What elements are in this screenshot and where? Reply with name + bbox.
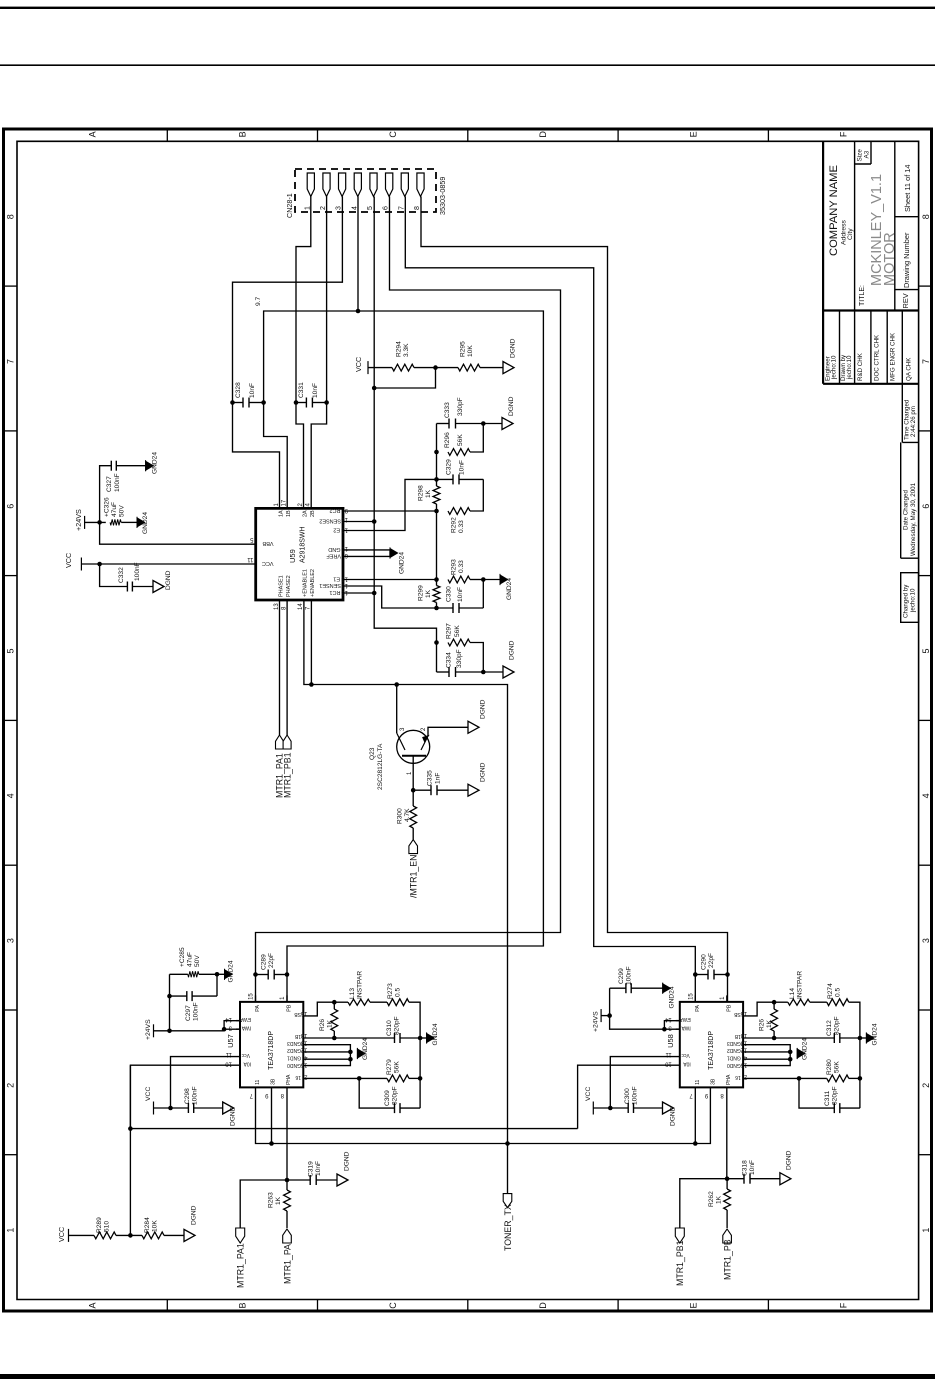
svg-text:4: 4 bbox=[351, 206, 358, 210]
svg-text:7: 7 bbox=[689, 1092, 693, 1098]
resistor R262 1K vertical bbox=[726, 1179, 728, 1189]
node C334 right bbox=[481, 670, 486, 675]
power VCC stub at R294 bbox=[367, 361, 369, 374]
svg-text:C: C bbox=[388, 131, 398, 138]
svg-text:11: 11 bbox=[695, 1079, 701, 1084]
svg-text:R297: R297 bbox=[446, 623, 453, 639]
svg-text:3B: 3B bbox=[710, 1078, 716, 1085]
connector CN28-1 dashed outline bbox=[295, 169, 436, 212]
svg-text:Wednesday, May 30, 2001: Wednesday, May 30, 2001 bbox=[910, 482, 917, 556]
wire PHASE1 to flag bbox=[279, 600, 281, 735]
U58 top pin stubs bbox=[694, 995, 696, 1002]
node U58 PHA junction bbox=[725, 1176, 730, 1181]
node RC2 network top (C329 left) bbox=[434, 477, 439, 482]
resistor R26 1K vertical bbox=[773, 1002, 775, 1009]
resistor R294 3.3K bbox=[392, 364, 414, 371]
ground DGND at C335 bbox=[468, 784, 479, 796]
ground GND24 at GND bracket bbox=[357, 1049, 365, 1058]
capacitor C330 10nF bbox=[452, 603, 454, 613]
svg-text:GND24: GND24 bbox=[399, 552, 406, 574]
capacitor C310 820pF bbox=[394, 1033, 396, 1043]
connector CN28-1 pin 1 bbox=[307, 173, 314, 197]
svg-text:QA CHK: QA CHK bbox=[906, 357, 913, 381]
svg-text:8: 8 bbox=[280, 1092, 284, 1098]
svg-text:A: A bbox=[87, 1302, 97, 1308]
svg-text:820pF: 820pF bbox=[392, 1086, 399, 1105]
bus U57/U58 bottom pins bbox=[256, 1087, 711, 1143]
title block company/title divider bbox=[854, 141, 856, 383]
wire PHASE2 to flag bbox=[286, 600, 288, 735]
svg-text:R279: R279 bbox=[386, 1059, 393, 1075]
svg-text:1K: 1K bbox=[716, 1195, 723, 1204]
svg-text:C318: C318 bbox=[742, 1160, 749, 1176]
node TONER_TX bus junction bbox=[505, 1141, 510, 1146]
svg-text:IWA: IWA bbox=[241, 1024, 251, 1030]
resistor R263 1K vertical bbox=[286, 1180, 288, 1190]
node R26 bottom bbox=[772, 1036, 777, 1041]
svg-text:C333: C333 bbox=[444, 402, 451, 418]
svg-text:IWA: IWA bbox=[681, 1024, 691, 1030]
svg-text:1A: 1A bbox=[279, 510, 285, 517]
wire R295 to DGND bbox=[480, 367, 503, 369]
frame row dividers (numbers strips) bbox=[4, 285, 18, 287]
svg-text:EWA: EWA bbox=[679, 1016, 691, 1022]
svg-text:3B: 3B bbox=[271, 1078, 277, 1085]
svg-text:PB: PB bbox=[726, 1004, 732, 1012]
svg-text:U59: U59 bbox=[288, 549, 297, 563]
svg-text:2B: 2B bbox=[310, 510, 316, 517]
svg-text:R298: R298 bbox=[418, 485, 425, 501]
svg-text:+24VS: +24VS bbox=[74, 509, 83, 531]
svg-text:GND3: GND3 bbox=[287, 1040, 301, 1046]
flag MTR1_PA1 at U59 bbox=[276, 735, 284, 749]
resistor R26 1K vertical bbox=[333, 1002, 335, 1009]
title block outline bbox=[822, 141, 824, 383]
svg-text:8: 8 bbox=[414, 206, 421, 210]
svg-text:15: 15 bbox=[341, 589, 348, 595]
svg-text:1: 1 bbox=[6, 1228, 16, 1233]
svg-text:GND24: GND24 bbox=[669, 986, 676, 1008]
svg-text:10nF: 10nF bbox=[249, 383, 256, 398]
node R26 top bbox=[332, 1000, 337, 1005]
U57 GND pins bracket bbox=[303, 1045, 350, 1066]
svg-text:MTR1_PB1: MTR1_PB1 bbox=[675, 1240, 685, 1286]
node C331 right bbox=[324, 400, 329, 405]
node R294/R295 junction bbox=[433, 365, 438, 370]
svg-text:C310: C310 bbox=[386, 1020, 393, 1036]
svg-text:SB: SB bbox=[294, 1011, 301, 1017]
svg-text:MOTOR: MOTOR bbox=[882, 232, 898, 286]
svg-text:+24VS: +24VS bbox=[145, 1019, 152, 1040]
wire U57 pin9 stub to bus bbox=[271, 1087, 273, 1143]
capacitor C333 330pF bbox=[448, 419, 450, 429]
power VCC stub at C298 bbox=[153, 1102, 155, 1115]
title block size cell bbox=[870, 141, 872, 164]
svg-text:R289: R289 bbox=[96, 1217, 103, 1233]
svg-text:GND24: GND24 bbox=[228, 960, 235, 982]
svg-text:C299: C299 bbox=[618, 968, 625, 984]
wire bottom pin 8 PHA down bbox=[726, 1087, 728, 1178]
svg-text:TEA3718DP: TEA3718DP bbox=[708, 1031, 715, 1070]
wire U57 SB pin to R26 top bbox=[303, 1002, 334, 1016]
svg-text:VCC: VCC bbox=[585, 1087, 592, 1101]
svg-text:7: 7 bbox=[398, 206, 405, 210]
svg-text:1K: 1K bbox=[275, 1196, 282, 1205]
svg-text:12: 12 bbox=[341, 582, 348, 588]
wire C333 to DGND bbox=[483, 423, 502, 425]
svg-text:GND: GND bbox=[328, 546, 340, 552]
node VCC rail U57 bbox=[168, 1106, 173, 1111]
svg-text:2: 2 bbox=[421, 727, 427, 731]
node VCC C332 tap bbox=[97, 562, 102, 567]
flag MTR1_EN bbox=[409, 840, 418, 854]
svg-text:R284: R284 bbox=[144, 1217, 151, 1233]
node C290 right bbox=[725, 972, 730, 977]
ground DGND at C319 bbox=[337, 1174, 348, 1186]
node R56 right at rail bbox=[418, 1076, 423, 1081]
svg-text:DGND: DGND bbox=[510, 338, 517, 358]
svg-text:VCC: VCC bbox=[57, 1227, 66, 1242]
wire RC1 pin to sense rail bbox=[343, 592, 374, 594]
capacitor C309 820pF bbox=[359, 1078, 394, 1108]
capacitor C326 47uF 50V (electrolytic) bbox=[110, 519, 121, 525]
svg-text:22pF: 22pF bbox=[268, 953, 275, 968]
svg-text:+C285: +C285 bbox=[179, 947, 186, 967]
ground GND24 at C285 bbox=[217, 973, 225, 975]
svg-text:5: 5 bbox=[250, 536, 254, 542]
svg-text:18: 18 bbox=[300, 1032, 307, 1038]
svg-text:+C326: +C326 bbox=[104, 497, 111, 517]
svg-text:C334: C334 bbox=[446, 652, 453, 668]
wire R294 to junction bbox=[414, 367, 458, 369]
ground DGND at C300 bbox=[663, 1102, 674, 1114]
node R296 left bbox=[434, 450, 439, 455]
wire ENABLE1 to collector bus bbox=[304, 600, 508, 1144]
svg-text:VCC: VCC bbox=[64, 553, 73, 568]
svg-text:2: 2 bbox=[921, 1083, 931, 1088]
node ENABLE2 junction bbox=[309, 682, 314, 687]
svg-text:330pF: 330pF bbox=[456, 649, 463, 668]
capacitor C300 100nF bbox=[627, 1103, 629, 1113]
svg-text:SENSE1: SENSE1 bbox=[319, 582, 341, 588]
wire U58 rail up to C299 bbox=[609, 988, 611, 1015]
wire R262 to MTR1_PB flag bbox=[726, 1210, 728, 1228]
wire R263 to MTR1_PA flag bbox=[286, 1211, 288, 1228]
resistor R300 4.7K vertical bbox=[412, 790, 414, 806]
flag MTR1_PA1 bbox=[236, 1228, 245, 1243]
wire R293 right to GND24 bbox=[470, 579, 483, 581]
node C289 right bbox=[285, 972, 290, 977]
svg-text:C298: C298 bbox=[184, 1088, 191, 1104]
svg-text:100nF: 100nF bbox=[631, 1086, 638, 1105]
wire SENSE2 pin to sense rail bbox=[343, 521, 374, 523]
node R297 left bbox=[434, 640, 439, 645]
svg-text:16: 16 bbox=[300, 1010, 307, 1016]
flag MTR1_PB1 bbox=[675, 1228, 684, 1243]
svg-text:jecho:10: jecho:10 bbox=[846, 355, 853, 380]
ground GND24 at C327 bbox=[146, 461, 154, 470]
svg-text:3: 3 bbox=[336, 206, 343, 210]
svg-text:DGND: DGND bbox=[508, 396, 515, 416]
capacitor C334 330pF bbox=[448, 667, 450, 677]
resistor R280 56K bbox=[827, 1075, 849, 1082]
svg-text:100nF: 100nF bbox=[114, 473, 121, 492]
svg-text:COMPANY NAME: COMPANY NAME bbox=[828, 165, 840, 256]
resistor R273 0.5 bbox=[370, 1001, 387, 1003]
svg-text:C300: C300 bbox=[624, 1088, 631, 1104]
op-amp U58 TEA3718DP body bbox=[680, 1002, 743, 1088]
capacitor C311 820pF bbox=[799, 1078, 834, 1108]
wire rail to GND24 bbox=[420, 1037, 427, 1039]
capacitor C329 10nF bbox=[452, 474, 454, 484]
svg-text:1: 1 bbox=[280, 996, 286, 1000]
wire 1B pin row to C312 bbox=[743, 1037, 834, 1039]
svg-text:C311: C311 bbox=[824, 1090, 831, 1106]
svg-text:DGND: DGND bbox=[669, 1106, 676, 1126]
svg-text:GND2: GND2 bbox=[727, 1047, 741, 1053]
svg-text:A2918SWH: A2918SWH bbox=[300, 526, 307, 563]
node C820a right at rail bbox=[418, 1036, 423, 1041]
svg-text:GND24: GND24 bbox=[152, 452, 159, 474]
svg-text:jecho:10: jecho:10 bbox=[910, 588, 917, 613]
svg-text:Vcc: Vcc bbox=[681, 1052, 690, 1058]
svg-text:GND24: GND24 bbox=[432, 1023, 439, 1045]
svg-text:4.7K: 4.7K bbox=[404, 808, 411, 822]
node sense rail SENSE2 tap bbox=[372, 519, 377, 524]
capacitor C289 22pF bbox=[267, 970, 269, 980]
svg-text:Date Changed: Date Changed bbox=[903, 490, 910, 530]
svg-text:E: E bbox=[688, 131, 698, 137]
svg-text:E2: E2 bbox=[333, 527, 340, 533]
svg-text:R295: R295 bbox=[460, 341, 467, 357]
op-amp U57 TEA3718DP body bbox=[240, 1002, 303, 1088]
svg-text:100nF: 100nF bbox=[134, 562, 141, 581]
svg-text:15: 15 bbox=[249, 993, 255, 1000]
svg-text:MTR1_PA: MTR1_PA bbox=[283, 1244, 293, 1284]
wire U58 SB pin to R26 top bbox=[743, 1002, 774, 1016]
svg-text:MFG ENGR CHK: MFG ENGR CHK bbox=[890, 332, 897, 381]
ground GND24 at rail bbox=[427, 1034, 435, 1043]
svg-text:C297: C297 bbox=[185, 1005, 192, 1021]
svg-text:City: City bbox=[847, 228, 854, 240]
wire E2 pin jog to C329 node bbox=[343, 479, 437, 530]
wire C333 node down rail bbox=[436, 424, 438, 483]
wire CN28 pin6 to U57 PA bbox=[256, 197, 561, 1002]
svg-text:D: D bbox=[538, 131, 548, 138]
svg-text:15: 15 bbox=[740, 1061, 747, 1067]
wire +24VS rail up to C285 bbox=[169, 974, 171, 1031]
power +24VS stub at U57 bbox=[153, 1024, 155, 1037]
resistor R295 10K bbox=[458, 364, 480, 371]
wire Q23 emitter to DGND bbox=[428, 727, 468, 736]
svg-text:50V: 50V bbox=[119, 505, 126, 517]
svg-text:TITLE:: TITLE: bbox=[859, 285, 866, 306]
resistor R296 56K bbox=[448, 449, 470, 456]
capacitor C319 10nF bbox=[287, 1179, 310, 1181]
U58 GND pins bracket bbox=[743, 1045, 790, 1066]
ground DGND at C298 bbox=[223, 1102, 234, 1114]
svg-text:1: 1 bbox=[921, 1228, 931, 1233]
svg-text:10K: 10K bbox=[467, 345, 474, 357]
svg-text:15: 15 bbox=[688, 993, 694, 1000]
svg-text:PHA: PHA bbox=[286, 1074, 292, 1085]
node R56 right at rail bbox=[858, 1076, 863, 1081]
svg-text:0.5: 0.5 bbox=[395, 988, 402, 997]
connector CN28-1 pin 7 bbox=[401, 173, 408, 197]
svg-text:C332: C332 bbox=[118, 567, 125, 583]
svg-text:PA: PA bbox=[255, 1005, 261, 1012]
wire collector bus down to TONER_TX bbox=[507, 1144, 509, 1194]
node Q23 collector junction bbox=[394, 682, 399, 687]
wire R to rail bbox=[849, 1002, 860, 1108]
svg-text:5: 5 bbox=[367, 206, 374, 210]
svg-text:1B: 1B bbox=[286, 510, 292, 517]
svg-text:R292: R292 bbox=[451, 517, 458, 533]
svg-text:C331: C331 bbox=[298, 382, 305, 398]
ground DGND at C333 bbox=[502, 418, 513, 430]
wire C326 to GND24 bbox=[121, 521, 137, 523]
node R26 top bbox=[772, 1000, 777, 1005]
svg-text:13: 13 bbox=[341, 527, 348, 533]
wire collector down to Q23 bbox=[396, 685, 398, 734]
node R293 left bbox=[434, 577, 439, 582]
svg-text:47uF: 47uF bbox=[111, 502, 118, 517]
frame column dividers (letters strips) bbox=[166, 129, 168, 141]
ground GND24 at C326 bbox=[137, 518, 145, 527]
svg-text:GND1: GND1 bbox=[727, 1054, 741, 1060]
wire CN28 pin4 branch right to U57 PB bbox=[287, 311, 543, 1002]
svg-text:R293: R293 bbox=[451, 559, 458, 575]
ground GND24 at GND bracket bbox=[797, 1049, 805, 1058]
resistor R289 510 bbox=[94, 1232, 116, 1239]
svg-text:10nF: 10nF bbox=[459, 460, 466, 475]
title block sheet cell divider bbox=[895, 216, 919, 218]
op-amp U59 A2918SWH body bbox=[256, 508, 343, 600]
wire bottom pin 8 PHA down bbox=[286, 1087, 288, 1178]
resistor R284 10K bbox=[142, 1232, 164, 1239]
date changed cell bbox=[900, 442, 902, 558]
inductor L14 INSTPAR bbox=[774, 1001, 788, 1003]
svg-text:7: 7 bbox=[249, 1092, 253, 1098]
svg-text:3.3K: 3.3K bbox=[403, 343, 410, 357]
svg-text:TONER_TX: TONER_TX bbox=[503, 1204, 513, 1251]
wire C330 right up to R293 right bbox=[482, 580, 484, 609]
svg-text:U58: U58 bbox=[666, 1034, 675, 1048]
wire +24VS to rail bbox=[85, 521, 106, 523]
svg-text:R273: R273 bbox=[387, 983, 394, 999]
svg-text:9: 9 bbox=[344, 507, 348, 513]
capacitor C290 22pF bbox=[707, 970, 709, 980]
resistor R297 56K bbox=[448, 639, 470, 646]
wire E1 pin row to R293 node bbox=[343, 579, 437, 581]
node +24VS rail U58 bbox=[607, 1013, 612, 1018]
svg-text:RC1: RC1 bbox=[329, 589, 340, 595]
svg-text:C327: C327 bbox=[106, 476, 113, 492]
svg-text:820pF: 820pF bbox=[833, 1016, 840, 1035]
capacitor C298 100nF bbox=[187, 1103, 189, 1113]
svg-text:3: 3 bbox=[400, 727, 406, 731]
wire VCC rail up to Vcc pin bbox=[610, 1057, 680, 1108]
svg-text:E: E bbox=[688, 1302, 698, 1308]
svg-text:56K: 56K bbox=[454, 625, 461, 637]
svg-text:R274: R274 bbox=[827, 983, 834, 999]
wire CN28 pin5 down long sense rail bbox=[374, 197, 436, 673]
signoff row dividers bbox=[839, 311, 841, 384]
svg-text:D: D bbox=[538, 1302, 548, 1309]
svg-text:35303-0859: 35303-0859 bbox=[438, 177, 447, 215]
svg-text:+24VS: +24VS bbox=[593, 1011, 600, 1032]
wire +24VS rail up to C327 bbox=[100, 466, 112, 523]
svg-text:2: 2 bbox=[6, 1083, 16, 1088]
node R293 right bbox=[481, 577, 486, 582]
U58 EWA/IWA bracket bbox=[664, 1021, 679, 1029]
svg-text:VCC: VCC bbox=[145, 1087, 152, 1101]
svg-text:7: 7 bbox=[6, 359, 16, 364]
svg-text:6: 6 bbox=[344, 552, 348, 558]
svg-text:VREF: VREF bbox=[326, 553, 341, 559]
wire U58 rail down to bracket bbox=[610, 1016, 665, 1030]
svg-text:PA: PA bbox=[695, 1005, 701, 1012]
power VCC stub bottom-left bbox=[68, 1229, 70, 1242]
wire R296 right up to C333 bbox=[470, 424, 483, 453]
svg-text:7: 7 bbox=[921, 359, 931, 364]
node C330 left bbox=[434, 606, 439, 611]
svg-text:R299: R299 bbox=[418, 585, 425, 601]
svg-text:L14: L14 bbox=[789, 988, 796, 999]
node pin2 C820b tap bbox=[797, 1076, 802, 1081]
svg-text:16: 16 bbox=[740, 1010, 747, 1016]
svg-text:DGND: DGND bbox=[786, 1150, 793, 1170]
U57 left pin stubs bbox=[236, 1020, 240, 1022]
connector CN28-1 pin 4 bbox=[354, 173, 361, 197]
power +24VS stub at U58 bbox=[600, 1009, 602, 1022]
wire CN28 pin7 to U58 PA bbox=[405, 197, 695, 1002]
svg-text:PHASE1: PHASE1 bbox=[279, 575, 285, 597]
node R292 left bbox=[434, 509, 439, 514]
svg-text:SB: SB bbox=[733, 1011, 740, 1017]
svg-text:R26: R26 bbox=[759, 1019, 766, 1031]
capacitor C332 100nF bbox=[126, 582, 128, 592]
svg-text:L13: L13 bbox=[349, 988, 356, 999]
connector CN28-1 pin 5 bbox=[370, 173, 377, 197]
page sub-header rule bbox=[0, 64, 935, 66]
svg-text:F: F bbox=[839, 1302, 849, 1308]
connector CN28-1 pin 6 bbox=[386, 173, 393, 197]
svg-text:1B: 1B bbox=[294, 1033, 301, 1039]
time changed cell bbox=[901, 384, 903, 443]
svg-text:0.33: 0.33 bbox=[458, 560, 465, 573]
U59 GND/VREF bracket bbox=[343, 550, 390, 557]
svg-text:C289: C289 bbox=[261, 954, 268, 970]
svg-text:B: B bbox=[238, 131, 248, 137]
svg-text:R26: R26 bbox=[319, 1019, 326, 1031]
svg-text:C328: C328 bbox=[235, 382, 242, 398]
svg-text:F: F bbox=[839, 131, 849, 137]
svg-text:16: 16 bbox=[735, 1074, 741, 1080]
wire rail to GND24 bbox=[860, 1037, 867, 1039]
svg-text:6: 6 bbox=[921, 504, 931, 509]
resistor R298 1K vertical bbox=[436, 479, 438, 486]
bus logic rail to U58 I0A bbox=[130, 1128, 577, 1130]
wire SENSE1 pin jog to C330 node bbox=[343, 586, 437, 608]
svg-text:VCC: VCC bbox=[262, 560, 274, 566]
title block drawing-number column divider bbox=[894, 141, 896, 310]
svg-text:5: 5 bbox=[921, 648, 931, 653]
node C328 left bbox=[230, 400, 235, 405]
wire junction tap to sense rail bbox=[374, 368, 435, 388]
svg-text:R280: R280 bbox=[826, 1059, 833, 1075]
wire CN28 pin2 to C331 right and U59 2B bbox=[311, 197, 326, 509]
